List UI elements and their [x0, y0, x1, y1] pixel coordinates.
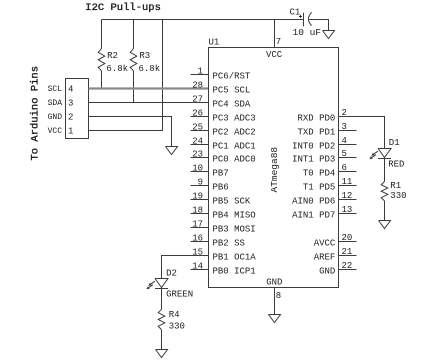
svg-text:PB7: PB7 — [213, 169, 229, 179]
U1 pin 17 PB3 MOSI — [191, 219, 256, 234]
wire: SCL net (highlighted) — [89, 87, 209, 89]
svg-text:7: 7 — [276, 37, 281, 47]
svg-text:GND: GND — [266, 277, 282, 287]
U1 pin 15 PB1 OC1A — [191, 247, 257, 262]
wire: U1 pin 7 VCC to rail — [275, 20, 282, 48]
svg-text:AVCC: AVCC — [314, 239, 336, 249]
U1 pin 6 T0 PD4 — [303, 163, 357, 179]
svg-text:PC0 ADC0: PC0 ADC0 — [213, 155, 256, 165]
svg-text:GND: GND — [319, 267, 335, 277]
svg-text:10: 10 — [192, 163, 203, 173]
U1 pin 18 PB4 MISO — [191, 205, 256, 220]
svg-text:25: 25 — [192, 122, 203, 132]
svg-text:14: 14 — [192, 261, 203, 271]
wire: R1 to ground — [384, 201, 386, 221]
svg-text:2: 2 — [68, 113, 73, 123]
ground (R1) — [379, 221, 391, 229]
U1 pin 22 GND — [319, 261, 356, 277]
ground (U1 pin 8) — [269, 315, 281, 323]
wire: PB1 to LED D2 — [162, 256, 209, 279]
svg-text:6.8k: 6.8k — [106, 64, 128, 74]
svg-text:C1: C1 — [290, 8, 301, 18]
label: To Arduino Pins (rotated) — [29, 66, 41, 161]
svg-text:26: 26 — [192, 108, 203, 118]
svg-text:PC3 ADC3: PC3 ADC3 — [213, 114, 256, 124]
svg-text:R4: R4 — [169, 310, 180, 320]
ground (C1) — [323, 31, 335, 39]
svg-text:24: 24 — [192, 136, 203, 146]
U1 pin 3 TXD PD1 — [297, 122, 356, 138]
svg-text:17: 17 — [192, 219, 203, 229]
svg-text:RED: RED — [388, 159, 404, 169]
svg-text:18: 18 — [192, 205, 203, 215]
wire: R4 to ground — [161, 330, 163, 350]
svg-text:8: 8 — [276, 291, 281, 301]
svg-text:T0 PD4: T0 PD4 — [303, 169, 335, 179]
svg-text:INT0 PD2: INT0 PD2 — [292, 142, 335, 152]
svg-text:R1: R1 — [390, 181, 401, 191]
connector pin label GND — [48, 113, 63, 122]
svg-text:PC2 ADC2: PC2 ADC2 — [213, 128, 256, 138]
wire: D1 to R1 — [384, 159, 386, 182]
svg-text:D1: D1 — [389, 138, 400, 148]
U1 pin 21 AREF — [314, 247, 357, 263]
svg-text:AIN0 PD6: AIN0 PD6 — [292, 197, 335, 207]
svg-text:R2: R2 — [107, 51, 118, 61]
svg-text:21: 21 — [342, 247, 353, 257]
svg-text:PB3 MOSI: PB3 MOSI — [213, 225, 256, 235]
IC U1 part name ATmega88 (rotated) — [269, 147, 280, 193]
svg-text:3: 3 — [68, 99, 73, 109]
svg-text:12: 12 — [342, 191, 353, 201]
resistor R2 6.8k (I2C pull-up) — [98, 20, 128, 89]
svg-text:PB1 OC1A: PB1 OC1A — [213, 253, 257, 263]
svg-text:VCC: VCC — [48, 127, 63, 136]
svg-text:PB4 MISO: PB4 MISO — [213, 211, 256, 221]
net label: I2C Pull-ups — [85, 2, 161, 14]
svg-text:1: 1 — [68, 127, 73, 137]
svg-text:AREF: AREF — [314, 253, 336, 263]
svg-text:INT1 PD3: INT1 PD3 — [292, 155, 335, 165]
svg-text:PB6: PB6 — [213, 183, 229, 193]
U1 pin 26 PC3 ADC3 — [191, 108, 256, 123]
svg-text:23: 23 — [192, 149, 203, 159]
svg-text:19: 19 — [192, 191, 203, 201]
svg-text:T1 PD5: T1 PD5 — [303, 183, 335, 193]
svg-text:5: 5 — [342, 149, 347, 159]
svg-text:330: 330 — [390, 191, 406, 201]
LED D1 — [369, 138, 404, 169]
svg-text:ATmega88: ATmega88 — [269, 147, 280, 193]
IC U1 ATmega88 body — [209, 37, 339, 287]
svg-text:I2C Pull-ups: I2C Pull-ups — [85, 2, 161, 14]
svg-text:SCL: SCL — [48, 85, 63, 94]
ground (connector GND) — [166, 147, 178, 155]
U1 pin 24 PC1 ADC1 — [191, 136, 256, 151]
svg-text:PC6/RST: PC6/RST — [213, 72, 251, 82]
svg-text:6.8k: 6.8k — [139, 64, 161, 74]
resistor R1 330 — [381, 181, 406, 201]
U1 pin 4 INT0 PD2 — [292, 136, 356, 152]
svg-text:4: 4 — [68, 85, 73, 95]
svg-text:To Arduino Pins: To Arduino Pins — [29, 66, 41, 161]
U1 pin 9 PB6 — [191, 177, 229, 192]
svg-text:10 uF: 10 uF — [293, 27, 322, 38]
svg-text:16: 16 — [192, 233, 203, 243]
capacitor C1 10 uF — [290, 8, 322, 39]
svg-text:PB2 SS: PB2 SS — [213, 239, 245, 249]
svg-text:20: 20 — [342, 233, 353, 243]
U1 pin 16 PB2 SS — [191, 233, 245, 248]
svg-text:27: 27 — [192, 94, 203, 104]
svg-text:PB0 ICP1: PB0 ICP1 — [213, 267, 256, 277]
U1 pin 23 PC0 ADC0 — [191, 149, 256, 164]
svg-text:PC1 ADC1: PC1 ADC1 — [213, 142, 256, 152]
svg-text:11: 11 — [342, 177, 353, 187]
svg-text:PB5 SCK: PB5 SCK — [213, 197, 251, 207]
connector pin label SDA — [48, 99, 63, 108]
U1 pin 5 INT1 PD3 — [292, 149, 356, 165]
svg-text:D2: D2 — [166, 269, 177, 279]
svg-text:PC4 SDA: PC4 SDA — [213, 100, 251, 110]
svg-text:6: 6 — [342, 163, 347, 173]
wire: VCC top rail — [102, 19, 304, 21]
wire: D2 to R4 — [161, 289, 163, 310]
svg-text:330: 330 — [169, 322, 185, 332]
svg-text:4: 4 — [342, 136, 347, 146]
svg-text:U1: U1 — [209, 37, 220, 47]
U1 pin 13 AIN1 PD7 — [292, 205, 356, 221]
wire: C1 to ground — [309, 20, 328, 31]
svg-text:VCC: VCC — [266, 50, 283, 60]
U1 pin 20 AVCC — [314, 233, 357, 249]
U1 pin 14 PB0 ICP1 — [191, 261, 256, 276]
svg-text:SDA: SDA — [48, 99, 63, 108]
U1 pin 28 PC5 SCL — [192, 80, 250, 95]
svg-text:13: 13 — [342, 205, 353, 215]
svg-text:AIN1 PD7: AIN1 PD7 — [292, 211, 335, 221]
resistor R3 6.8k (I2C pull-up) — [130, 20, 160, 103]
U1 pin 2 RXD PD0 — [297, 108, 346, 124]
svg-text:1: 1 — [198, 66, 203, 76]
U1 pin 19 PB5 SCK — [191, 191, 251, 206]
U1 pin 12 AIN0 PD6 — [292, 191, 356, 207]
LED D2 — [146, 269, 193, 300]
U1 pin 1 PC6/RST — [191, 66, 251, 81]
connector pin label SCL — [48, 85, 63, 94]
resistor R4 330 — [158, 309, 185, 331]
U1 pin 10 PB7 — [191, 163, 229, 178]
wire: VCC from connector pin 1 to rail — [89, 20, 163, 131]
U1 pin 27 PC4 SDA — [192, 94, 251, 109]
svg-text:GND: GND — [48, 113, 63, 122]
U1 pin 25 PC2 ADC2 — [191, 122, 256, 137]
wire: U1 pin 8 GND down — [275, 288, 282, 315]
ground (R4) — [156, 350, 168, 358]
svg-text:RXD PD0: RXD PD0 — [297, 114, 335, 124]
svg-text:GREEN: GREEN — [166, 290, 193, 300]
svg-text:9: 9 — [198, 177, 203, 187]
svg-text:R3: R3 — [139, 51, 150, 61]
U1 pin 11 T1 PD5 — [303, 177, 357, 193]
svg-text:TXD PD1: TXD PD1 — [297, 128, 335, 138]
svg-text:22: 22 — [342, 261, 353, 271]
svg-text:3: 3 — [342, 122, 347, 132]
connector J1 (To Arduino Pins) — [66, 79, 89, 139]
wire: GND net from connector — [89, 117, 172, 147]
svg-text:PC5 SCL: PC5 SCL — [213, 86, 251, 96]
wire: SDA net — [89, 102, 209, 104]
svg-text:28: 28 — [192, 80, 203, 90]
wire: PD0 to LED D1 — [339, 117, 385, 149]
connector pin label VCC — [48, 127, 63, 136]
